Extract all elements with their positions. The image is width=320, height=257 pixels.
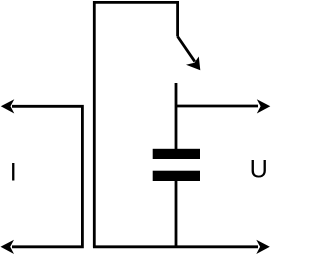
svg-text:I: I [10,158,17,186]
capacitor C1 top plate [153,149,200,159]
wire: source-loop left conductor (up the middle, across the top, down to switch) [94,2,177,247]
capacitor C1 bottom plate [153,171,200,181]
arrow: voltage U reference, bottom arrowhead (points right on bottom conductor) [256,240,270,254]
svg-text:U: U [250,156,268,184]
wire: capacitor bottom lead [175,178,178,247]
wire: bottom conductor joining source to capacitor [93,245,258,248]
arrow: current I direction indicator (two left-pointing arrows joined by a vertical) [1,99,83,254]
arrow: voltage U reference, top (points right from capacitor node) [176,99,270,113]
wire: capacitor top lead [175,83,178,152]
switch S1 (open arm drawn as arrow toward capacitor branch) [178,37,201,71]
